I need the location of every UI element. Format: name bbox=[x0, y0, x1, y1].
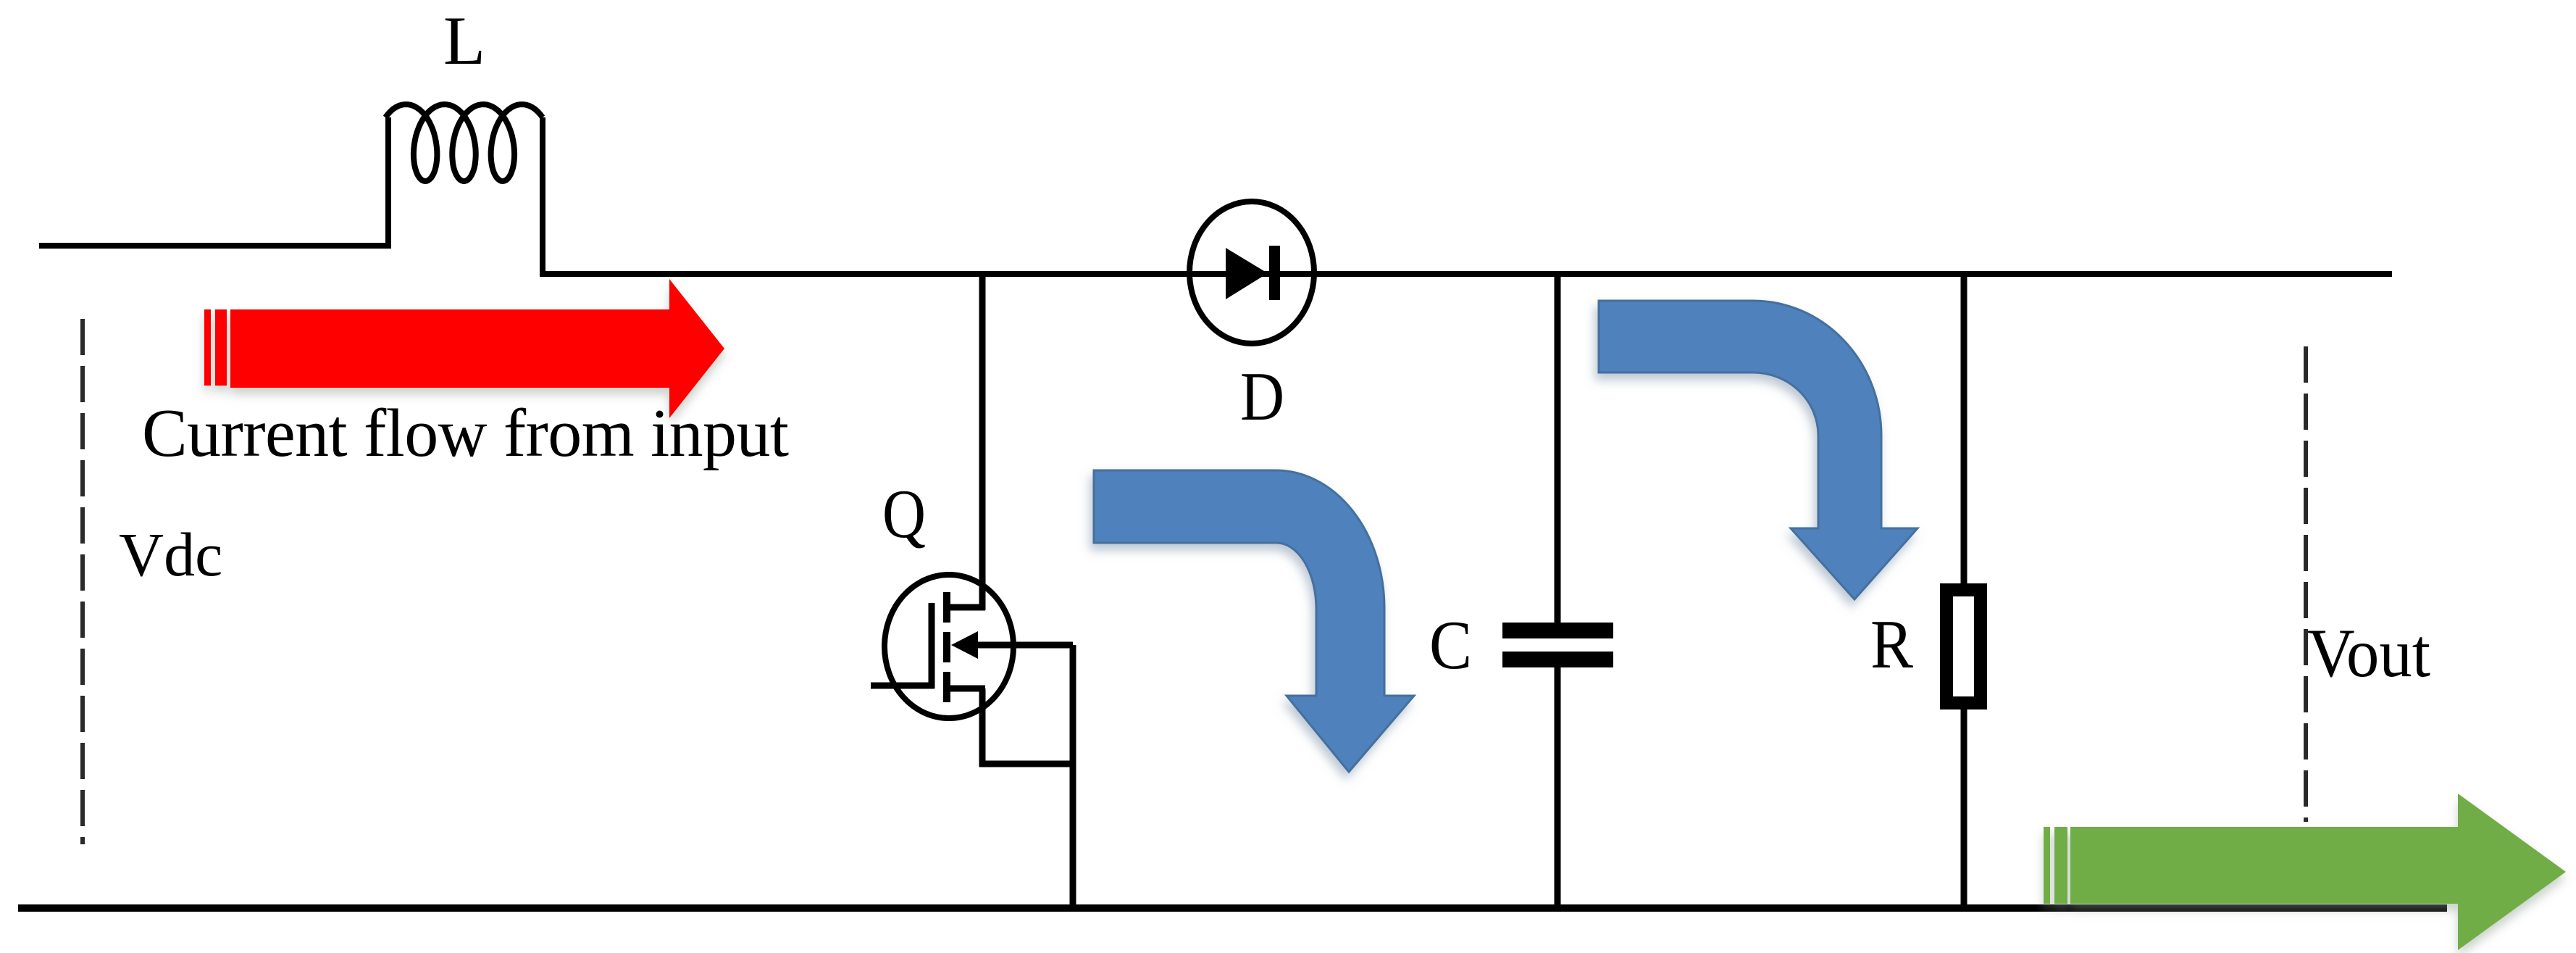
svg-text:Q: Q bbox=[882, 475, 926, 552]
transistor Q body wire bbox=[974, 642, 1073, 649]
inductor L left riser wire bbox=[385, 117, 391, 249]
green output arrow bbox=[2044, 794, 2566, 950]
diode D cathode bar bbox=[1269, 246, 1280, 300]
inductor L coil bbox=[385, 104, 543, 181]
blue current arrow 2 (to load branch) bbox=[1599, 301, 1918, 599]
capacitor C bottom wire bbox=[1555, 666, 1561, 908]
svg-text:C: C bbox=[1429, 607, 1472, 683]
resistor R bottom wire bbox=[1961, 707, 1967, 908]
wire source to body junction bbox=[979, 761, 1076, 767]
transistor Q source bar bbox=[944, 686, 985, 692]
transistor Q body arrow bbox=[951, 631, 978, 659]
transistor Q channel segment 3 bbox=[943, 672, 950, 702]
resistor R body bbox=[1946, 590, 1981, 703]
capacitor C top wire bbox=[1555, 274, 1561, 624]
resistor R top wire bbox=[1961, 274, 1967, 587]
capacitor C top plate bbox=[1502, 623, 1613, 638]
transistor Q gate line bbox=[929, 603, 935, 688]
diode D anode triangle bbox=[1226, 248, 1268, 299]
svg-text:Current flow from input: Current flow from input bbox=[142, 396, 789, 471]
transistor Q drain bar bbox=[944, 604, 985, 611]
svg-text:D: D bbox=[1240, 358, 1284, 435]
capacitor C bottom plate bbox=[1502, 652, 1613, 667]
svg-text:Vout: Vout bbox=[2307, 615, 2430, 691]
transistor Q channel segment 1 bbox=[943, 592, 950, 623]
diode D circle bbox=[1189, 201, 1314, 344]
wire top rail bbox=[540, 271, 2392, 277]
node Vout dashed line bbox=[2304, 346, 2308, 822]
wire bottom rail bbox=[18, 904, 2447, 912]
svg-text:R: R bbox=[1870, 606, 1914, 683]
transistor Q gate lead wire bbox=[871, 683, 934, 689]
wire top-left input segment bbox=[39, 243, 388, 249]
inductor L right riser wire bbox=[540, 117, 545, 277]
transistor Q channel segment 2 bbox=[943, 632, 950, 662]
svg-text:L: L bbox=[443, 2, 485, 79]
blue current arrow 1 (through Q branch) bbox=[1094, 470, 1414, 772]
svg-text:Vdc: Vdc bbox=[119, 520, 222, 589]
red input current arrow bbox=[204, 279, 724, 418]
wire body junction down to bottom rail bbox=[1070, 645, 1076, 908]
node Vdc dashed line bbox=[80, 319, 85, 844]
transistor Q source wire down bbox=[979, 688, 986, 767]
transistor Q mosfet circle bbox=[885, 575, 1013, 718]
transistor Q drain wire bbox=[979, 274, 986, 610]
